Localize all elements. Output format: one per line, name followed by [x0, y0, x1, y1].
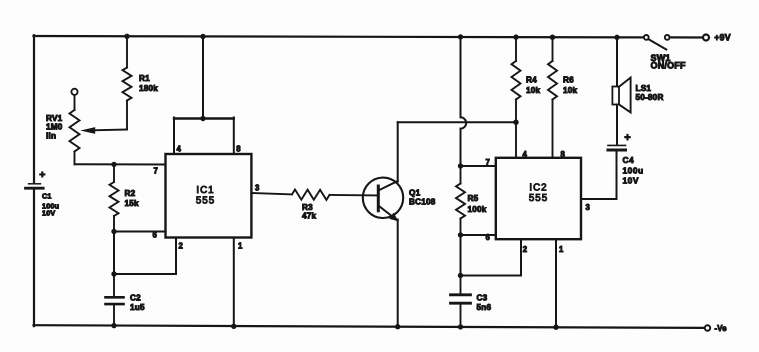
- node IC1 pin1 / bottom rail: [231, 324, 236, 329]
- wire R3 to Q1 base: [330, 194, 378, 197]
- wire left rail upper (to C1): [33, 35, 35, 182]
- node top rail / R4: [513, 34, 518, 39]
- svg-text:10V: 10V: [42, 208, 55, 217]
- svg-text:7: 7: [486, 158, 491, 167]
- svg-text:100u: 100u: [623, 165, 644, 175]
- svg-text:6: 6: [153, 231, 158, 240]
- node pin2 wire junction: [111, 271, 116, 276]
- node top rail / LS1: [614, 35, 619, 40]
- svg-text:2: 2: [179, 242, 184, 251]
- wire Q1 emitter to bottom rail: [397, 220, 399, 328]
- svg-text:LS1: LS1: [636, 84, 652, 93]
- svg-text:4: 4: [177, 145, 182, 154]
- capacitor C1 100u 10V: [29, 183, 41, 185]
- svg-text:1: 1: [559, 245, 564, 254]
- svg-text:1u5: 1u5: [130, 303, 145, 312]
- wire IC2 pin3 output: [581, 198, 617, 200]
- svg-text:+: +: [39, 169, 45, 181]
- node C2 / bottom rail: [111, 323, 116, 328]
- svg-text:+: +: [624, 132, 631, 144]
- svg-text:10V: 10V: [623, 175, 639, 185]
- wire pin6 node down to pin2 node: [460, 235, 462, 276]
- wire RV1 bottom to IC1 pin7: [75, 163, 166, 165]
- node IC2 pin6 junction: [458, 232, 463, 237]
- svg-text:47k: 47k: [302, 212, 317, 221]
- resistor R4 10k: [515, 37, 517, 61]
- svg-text:555: 555: [196, 196, 215, 207]
- resistor R5 100k: [460, 166, 462, 184]
- svg-text:7: 7: [154, 167, 159, 176]
- svg-text:1: 1: [238, 242, 243, 251]
- terminal +9V: [703, 35, 709, 41]
- resistor R3 47k: [292, 190, 330, 200]
- svg-text:4: 4: [523, 150, 528, 159]
- svg-text:100k: 100k: [468, 205, 487, 214]
- node top rail / R1: [124, 34, 129, 39]
- svg-text:8: 8: [236, 145, 241, 154]
- node R2 top junction: [111, 162, 116, 167]
- svg-text:5n6: 5n6: [477, 303, 492, 312]
- svg-text:6: 6: [486, 233, 491, 242]
- wire IC2 pin2 run: [520, 239, 522, 275]
- wire R2 junction down to pin2 wire: [113, 232, 115, 275]
- wire IC1 pin3 to R3: [251, 193, 292, 194]
- svg-text:Q1: Q1: [409, 188, 421, 197]
- svg-text:15k: 15k: [125, 199, 140, 208]
- svg-text:R2: R2: [125, 189, 136, 198]
- node top rail / IC1 supply: [200, 34, 205, 39]
- resistor R6 10k: [552, 37, 554, 61]
- transistor Q1 BC108: [363, 178, 403, 218]
- svg-text:3: 3: [586, 203, 591, 212]
- node Q1 emitter / bottom rail: [395, 324, 400, 329]
- svg-text:-Ve: -Ve: [715, 324, 728, 333]
- switch SW1 ON/OFF: [644, 35, 649, 40]
- svg-text:10k: 10k: [563, 86, 578, 95]
- node IC1 top bar junction: [200, 116, 205, 121]
- wire top supply rail (+9V): [34, 36, 644, 37]
- svg-text:R5: R5: [468, 194, 479, 203]
- svg-text:R1: R1: [139, 74, 150, 83]
- svg-text:IC1: IC1: [196, 185, 214, 196]
- node R2 bottom / pin6 junction: [111, 229, 116, 234]
- svg-text:BC108: BC108: [409, 198, 436, 207]
- svg-text:ON/OFF: ON/OFF: [651, 61, 686, 71]
- capacitor C3 5n6: [460, 276, 462, 294]
- svg-text:3: 3: [255, 184, 260, 193]
- wire Q1 collector up and right to R4/pin4 node: [397, 122, 399, 181]
- wire IC1 pin2 run: [114, 273, 176, 275]
- node top rail / R6: [550, 35, 555, 40]
- wire RV1 wiper from R1: [93, 129, 127, 132]
- svg-text:C2: C2: [130, 294, 141, 303]
- svg-text:50-80R: 50-80R: [636, 93, 664, 102]
- node R4 / Q1 collector / IC2 pin4: [513, 120, 518, 125]
- resistor R1 180k: [126, 36, 128, 67]
- svg-text:2: 2: [523, 245, 528, 254]
- svg-text:555: 555: [529, 193, 548, 204]
- node IC2 pin1 / bottom rail: [553, 325, 558, 330]
- svg-text:8: 8: [561, 150, 566, 159]
- wire top rail down to IC2 pin7 node (hops over collector wire): [460, 37, 462, 117]
- svg-text:R6: R6: [563, 76, 574, 85]
- node C3 / bottom rail: [458, 324, 463, 329]
- svg-text:lin: lin: [46, 132, 56, 141]
- svg-text:10k: 10k: [526, 86, 541, 95]
- node top rail / pin7 feed: [458, 34, 463, 39]
- wire R2 bottom to IC1 pin6: [114, 231, 166, 233]
- svg-text:C4: C4: [623, 155, 635, 165]
- wire to IC2 pin6: [461, 234, 496, 236]
- svg-text:C3: C3: [477, 294, 488, 303]
- svg-text:C1: C1: [42, 191, 52, 200]
- node IC2 pin2 junction: [458, 273, 463, 278]
- svg-text:1M0: 1M0: [46, 122, 63, 131]
- capacitor C2 1u5: [113, 274, 115, 296]
- svg-text:R4: R4: [526, 76, 537, 85]
- node IC2 pin7 junction: [458, 163, 463, 168]
- op-amp IC2 555 timer box: [496, 158, 581, 239]
- resistor R2 15k: [113, 164, 115, 182]
- wire bottom rail (-Ve): [34, 325, 704, 328]
- loudspeaker LS1 50-80R: [616, 37, 618, 86]
- wire left rail lower (C1 to bottom rail): [33, 190, 35, 327]
- wire IC1 pins 4-8 top bar: [174, 117, 234, 119]
- terminal -Ve: [705, 325, 710, 330]
- wire IC2 pin1 to bottom rail: [555, 239, 557, 327]
- svg-text:180k: 180k: [139, 84, 158, 93]
- wire IC1 pin1 to bottom rail: [233, 238, 235, 327]
- op-amp IC1 555 timer box: [166, 154, 252, 238]
- potentiometer RV1 1M0 lin: [71, 89, 77, 95]
- wire to IC2 pin7: [461, 165, 496, 167]
- svg-text:+9V: +9V: [714, 33, 731, 43]
- svg-text:IC2: IC2: [529, 182, 547, 193]
